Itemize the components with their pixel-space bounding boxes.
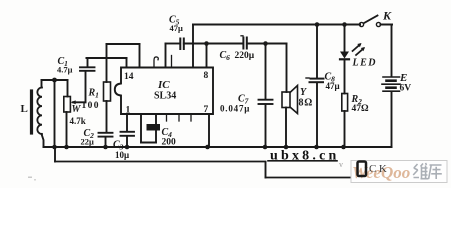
pin stubs below IC (166, 114, 168, 121)
svg-text:14: 14 (124, 72, 134, 82)
svg-text:IC: IC (157, 79, 170, 91)
wire junction horizontal (42, 79, 68, 81)
svg-text:4.7k: 4.7k (70, 116, 86, 126)
battery E (382, 77, 400, 91)
wire C7 to bottom rail (265, 104, 267, 147)
pin stub (pin 12) (171, 56, 173, 68)
node dot LED riser (342, 22, 347, 27)
svg-text:v: v (339, 160, 343, 169)
node A junction above coil (52, 78, 57, 83)
svg-text:10μ: 10μ (115, 150, 129, 160)
node dot C8 riser (315, 22, 320, 27)
capacitor C3 (121, 132, 135, 136)
junction dots on bottom rail (52, 145, 346, 150)
wire LED riser (344, 25, 346, 52)
wire C8 riser (316, 25, 318, 79)
svg-text:47μ: 47μ (326, 81, 340, 91)
svg-text:220μ: 220μ (235, 51, 255, 61)
wire W to rail (66, 112, 68, 147)
node dot C7 top (263, 41, 268, 46)
resistor R2 (342, 94, 348, 112)
capacitor C4 loop (140, 114, 142, 143)
IC U1 box with notch (115, 68, 213, 115)
svg-text:22μ: 22μ (81, 137, 95, 147)
wire pin8 riser (206, 44, 208, 68)
wire C2 to rail (105, 137, 107, 147)
capacitor C6 (241, 36, 247, 49)
LED (340, 43, 365, 59)
capacitor C2 (99, 133, 113, 137)
svg-text:47Ω: 47Ω (352, 104, 370, 114)
svg-text:8Ω: 8Ω (299, 98, 314, 109)
svg-text:W: W (72, 104, 82, 115)
wire C3 to rail (126, 136, 128, 147)
wire pin7 to rail (208, 114, 210, 147)
svg-text:6V: 6V (400, 84, 412, 94)
svg-text:L: L (21, 103, 28, 115)
svg-text:LED: LED (352, 58, 378, 69)
wire coil top lead (41, 80, 43, 88)
wire top rail (193, 24, 360, 26)
underline ubx8.cn (268, 160, 337, 162)
watermark box (351, 161, 447, 183)
wire pin12 riser and top link (139, 44, 141, 68)
capacitor C1 (87, 58, 89, 67)
capacitor C5 (180, 39, 184, 50)
svg-text:SL34: SL34 (154, 91, 176, 102)
svg-text:CK: CK (369, 163, 389, 175)
svg-text:8: 8 (204, 71, 209, 81)
svg-text:47μ: 47μ (170, 23, 184, 33)
svg-text:ubx8.cn: ubx8.cn (270, 149, 339, 164)
wire R2 to rail (344, 111, 346, 147)
pin stub curl (pin 13) (154, 57, 158, 68)
svg-text:4.7μ: 4.7μ (57, 65, 73, 75)
switch CK mark (358, 162, 367, 177)
svg-text:0.047μ: 0.047μ (220, 104, 250, 114)
wire lower link (266, 177, 353, 179)
core bar (30, 91, 33, 133)
svg-text:E: E (399, 72, 407, 84)
wire riser top-rail to IC (192, 25, 194, 68)
svg-text:K: K (382, 9, 392, 23)
wire junction down to rail (54, 80, 56, 147)
wire pin1 to C3 (126, 114, 128, 132)
wire battery riser (391, 25, 393, 77)
wire battery to bottom rail (391, 92, 393, 148)
svg-text:7: 7 (204, 105, 209, 115)
inductor L coil (37, 88, 42, 135)
svg-text:Y: Y (300, 87, 307, 98)
wire R1 to C2 (106, 101, 108, 133)
watermark weiku glyphs (413, 163, 442, 179)
wire C1 bottom to wiper (85, 71, 87, 102)
resistor R1 (104, 82, 111, 101)
speckle (28, 177, 32, 179)
capacitor C8 (306, 78, 324, 82)
wire pin14 link (87, 57, 127, 59)
speaker Y (286, 44, 288, 93)
node dot pin8 (204, 41, 209, 46)
wire coil bottom lead (42, 134, 44, 147)
wire LED to R2 (344, 60, 346, 94)
wire drop to lower link (265, 162, 267, 178)
capacitor C7 (265, 44, 267, 100)
wire bottom rail (44, 146, 392, 148)
wire second rail (54, 147, 56, 162)
wire C5 left lead down to IC (165, 44, 167, 68)
wire riser to R1 (106, 44, 108, 82)
wire C8 to rail (316, 83, 318, 148)
svg-text:100: 100 (82, 101, 100, 111)
wire speaker to bottom rail (285, 108, 287, 148)
wire mid rail (166, 43, 287, 45)
switch K (359, 16, 392, 27)
potentiometer W (67, 80, 69, 97)
